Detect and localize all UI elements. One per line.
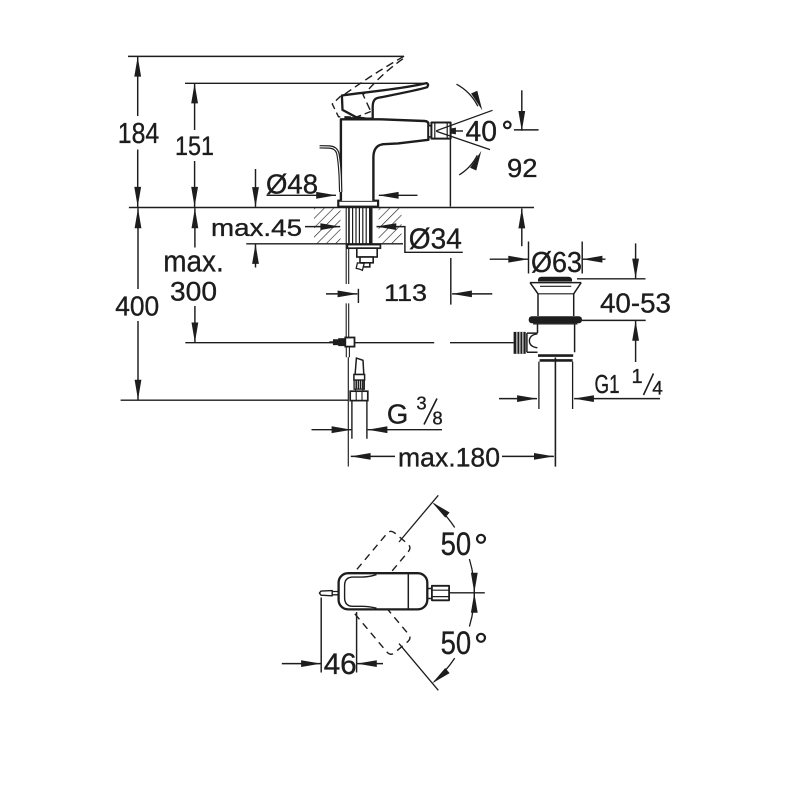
- svg-text:Ø48: Ø48: [266, 168, 318, 199]
- svg-text:max.45: max.45: [211, 215, 302, 242]
- svg-text:4: 4: [652, 379, 663, 400]
- svg-text:8: 8: [432, 408, 442, 429]
- svg-text:40-53: 40-53: [600, 287, 671, 318]
- svg-text:92: 92: [507, 153, 538, 183]
- svg-text:max.180: max.180: [398, 443, 500, 473]
- svg-text:40: 40: [466, 116, 498, 148]
- svg-text:151: 151: [175, 131, 214, 161]
- svg-text:G: G: [387, 398, 408, 429]
- svg-text:G1: G1: [595, 371, 620, 399]
- svg-text:46: 46: [324, 648, 357, 681]
- svg-text:400: 400: [115, 290, 159, 321]
- svg-text:184: 184: [118, 118, 160, 150]
- svg-text:Ø63: Ø63: [531, 247, 582, 279]
- svg-text:3: 3: [416, 393, 426, 414]
- svg-text:113: 113: [384, 280, 427, 307]
- svg-text:300: 300: [170, 276, 217, 306]
- svg-text:Ø34: Ø34: [409, 224, 462, 256]
- svg-text:max.: max.: [163, 243, 224, 278]
- svg-text:50: 50: [441, 625, 472, 661]
- svg-text:50: 50: [441, 526, 472, 562]
- svg-text:1: 1: [631, 366, 642, 388]
